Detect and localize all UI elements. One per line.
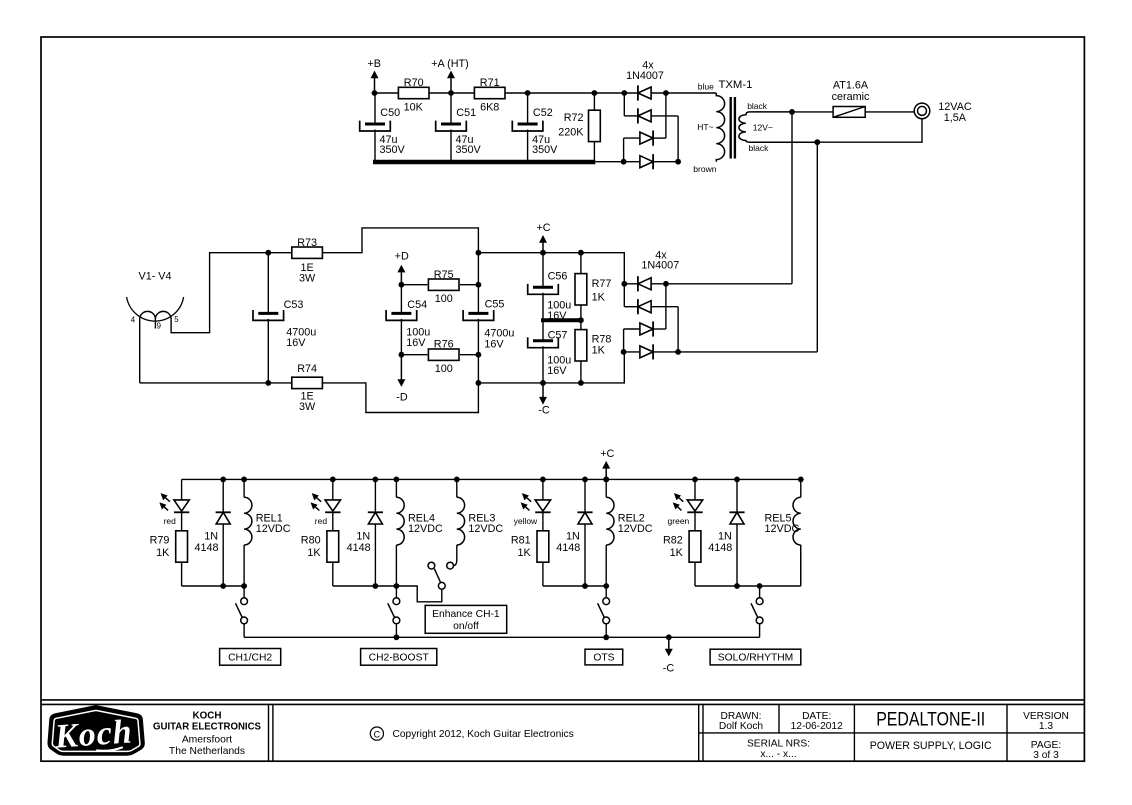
svg-text:4: 4 bbox=[131, 316, 136, 325]
relay coil REL2 bbox=[606, 497, 614, 545]
junction -C rail bbox=[540, 380, 546, 386]
svg-text:R77: R77 bbox=[592, 278, 612, 290]
wire secondary bottom to lower bridge bbox=[816, 142, 818, 352]
wire C55 bottom bbox=[477, 319, 479, 383]
title block divider logo/copyright bbox=[269, 704, 273, 761]
svg-text:GUITAR ELECTRONICS: GUITAR ELECTRONICS bbox=[153, 722, 261, 733]
svg-text:C50: C50 bbox=[380, 107, 400, 119]
svg-text:1.3: 1.3 bbox=[1039, 721, 1053, 732]
svg-text:16V: 16V bbox=[484, 339, 504, 351]
svg-text:TXM-1: TXM-1 bbox=[719, 79, 753, 91]
wire diode 1N4148 blk3 top bbox=[584, 479, 586, 512]
svg-text:4148: 4148 bbox=[347, 542, 371, 554]
wire LED blk1 top lead bbox=[181, 479, 183, 500]
title block top double line bbox=[41, 700, 1084, 705]
junction secondary bottom bbox=[814, 139, 820, 145]
junction blk4 rail LED-diode bbox=[734, 477, 740, 483]
resistor R75 bbox=[428, 279, 459, 290]
svg-text:1K: 1K bbox=[670, 547, 684, 559]
svg-text:4148: 4148 bbox=[194, 542, 218, 554]
wire diode 1N4148 blk2 bottom bbox=[374, 524, 376, 586]
svg-text:Amersfoort: Amersfoort bbox=[182, 734, 232, 745]
wire bridge row3 right bbox=[653, 137, 666, 139]
svg-text:+A (HT): +A (HT) bbox=[431, 58, 469, 70]
switch CH1/CH2 bbox=[236, 598, 248, 624]
wire R76 left bbox=[401, 354, 427, 356]
svg-text:1,5A: 1,5A bbox=[944, 112, 967, 124]
svg-text:C53: C53 bbox=[284, 299, 304, 311]
wire LED to R81 bbox=[542, 512, 544, 530]
svg-text:R78: R78 bbox=[592, 333, 612, 345]
logo Koch badge bbox=[49, 707, 143, 756]
junction R76 left bbox=[399, 352, 405, 358]
junction +B node bbox=[372, 90, 378, 96]
relay coil REL1 bbox=[244, 497, 252, 545]
svg-text:-C: -C bbox=[663, 662, 675, 674]
wire blk4 bottom rail bbox=[695, 585, 801, 587]
svg-text:100: 100 bbox=[435, 293, 453, 305]
junction R77 top bbox=[578, 250, 584, 256]
wire R73 to jog bbox=[323, 228, 479, 253]
wire blk4 switch to common bbox=[759, 624, 761, 638]
svg-text:red: red bbox=[315, 516, 328, 526]
wire C50 branch bbox=[374, 93, 376, 124]
wire blk1 switch to common bbox=[243, 624, 245, 638]
svg-text:KOCH: KOCH bbox=[193, 710, 222, 721]
wire lbridge row4 right bbox=[653, 351, 817, 353]
wire bottom rail left bbox=[140, 382, 292, 384]
wire diode 1N4148 blk4 top bbox=[736, 479, 738, 512]
node -C arrow (relay) bbox=[665, 637, 673, 656]
svg-text:100: 100 bbox=[435, 363, 453, 375]
junction C55 bottom bbox=[476, 380, 482, 386]
resistor R72 bbox=[589, 110, 601, 141]
svg-text:5: 5 bbox=[174, 315, 179, 324]
svg-text:C56: C56 bbox=[548, 270, 568, 282]
svg-text:C57: C57 bbox=[548, 330, 568, 342]
junction common blk3 bbox=[603, 634, 609, 640]
junction blk2 rail LED-diode bbox=[373, 477, 379, 483]
svg-text:12VDC: 12VDC bbox=[468, 523, 503, 535]
wire blk3 switch to common bbox=[605, 624, 607, 638]
svg-text:yellow: yellow bbox=[514, 516, 538, 526]
resistor R70 bbox=[398, 87, 429, 98]
junction blk3 rail LED-diode bbox=[582, 477, 588, 483]
junction C53 top bbox=[265, 250, 271, 256]
svg-text:C52: C52 bbox=[533, 107, 553, 119]
LED green blk4 bbox=[673, 494, 702, 513]
wire C52 branch bbox=[527, 93, 529, 124]
svg-text:V1- V4: V1- V4 bbox=[139, 271, 172, 283]
label box SOLO/RHYTHM bbox=[710, 649, 801, 665]
diode D4 top bridge row4 bbox=[640, 154, 653, 169]
switch Enhance CH-1 bbox=[428, 562, 454, 589]
junction blk3 rail LED bbox=[540, 477, 546, 483]
junction blk3 rail diode-coil bbox=[603, 477, 609, 483]
svg-text:1K: 1K bbox=[307, 547, 321, 559]
node +B arrow bbox=[371, 71, 379, 94]
wire REL5 bottom lead bbox=[800, 545, 802, 586]
wire C53 bottom bbox=[267, 319, 269, 383]
junction R75 left bbox=[399, 282, 405, 288]
svg-text:on/off: on/off bbox=[453, 621, 479, 632]
wire lbridge row4 left bbox=[624, 351, 640, 353]
junction bridge A top-left bbox=[621, 90, 627, 96]
wire pin9 stub bbox=[154, 318, 156, 328]
tube heater filament bbox=[140, 311, 171, 318]
wire REL3 to enhance switch bbox=[454, 545, 457, 566]
wire blk2 bottom rail bbox=[333, 585, 397, 587]
junction bridge C bottom-right bbox=[675, 159, 681, 165]
svg-text:350V: 350V bbox=[380, 144, 406, 156]
svg-text:1K: 1K bbox=[592, 345, 606, 357]
svg-text:1N: 1N bbox=[718, 530, 732, 542]
title block mid horizontal bbox=[699, 732, 1085, 734]
svg-text:CH1/CH2: CH1/CH2 bbox=[228, 653, 272, 664]
wire lbridge row2 right bbox=[651, 306, 678, 308]
wire switch common rail bbox=[244, 636, 760, 638]
wire blk2 switch to common bbox=[395, 624, 397, 638]
junction blk1 bottom coil bbox=[241, 583, 247, 589]
wire LED blk3 top lead bbox=[542, 479, 544, 500]
diode D5 lower bridge row1 bbox=[638, 276, 651, 291]
svg-text:3W: 3W bbox=[299, 401, 316, 413]
wire REL2 bottom lead bbox=[605, 545, 607, 586]
wire REL1 top lead bbox=[243, 479, 245, 497]
wire C54 bottom bbox=[400, 319, 402, 355]
junction blk2 bottom diode bbox=[373, 583, 379, 589]
junction +A node bbox=[448, 90, 454, 96]
connector 12VAC jack bbox=[914, 103, 930, 119]
svg-text:350V: 350V bbox=[456, 144, 482, 156]
junction blk3 bottom coil bbox=[603, 583, 609, 589]
wire bottom rail right bbox=[478, 352, 624, 383]
switch SOLO/RHYTHM bbox=[751, 598, 763, 624]
junction blk4 bottom diode bbox=[734, 583, 740, 589]
wire lbridge left-bot vertical bbox=[623, 329, 625, 352]
wire R75 left bbox=[401, 284, 427, 286]
wire REL4 top lead bbox=[395, 479, 397, 497]
wire R78 bottom lead bbox=[580, 361, 582, 383]
junction common blk2 bbox=[394, 634, 400, 640]
wire C54 column bbox=[400, 285, 402, 314]
junction R76 right bbox=[476, 352, 482, 358]
wire lbridge row3 left bbox=[624, 328, 640, 330]
svg-text:R71: R71 bbox=[480, 77, 500, 89]
junction bridge B top-right bbox=[663, 90, 669, 96]
resistor R73 bbox=[292, 247, 323, 258]
fuse AT1.6A bbox=[833, 107, 865, 118]
wire C51 branch bbox=[450, 93, 452, 124]
junction C55 top bbox=[476, 250, 482, 256]
junction blk2 bottom coil bbox=[394, 583, 400, 589]
transformer TXM-1 secondary winding bbox=[739, 112, 817, 142]
wire C51 to bus bbox=[450, 130, 452, 163]
wire C57 top bbox=[542, 320, 544, 341]
svg-text:12VDC: 12VDC bbox=[256, 523, 291, 535]
capacitor C56 bbox=[528, 284, 559, 294]
svg-text:1N: 1N bbox=[356, 530, 370, 542]
svg-text:1N: 1N bbox=[566, 530, 580, 542]
label box OTS bbox=[585, 649, 623, 665]
wire bridge right-bot vertical bbox=[677, 116, 679, 162]
svg-text:R81: R81 bbox=[511, 535, 531, 547]
diode D8 lower bridge row4 bbox=[640, 344, 653, 359]
junction blk4 rail LED bbox=[692, 477, 698, 483]
wire REL1 bottom lead bbox=[243, 545, 245, 586]
relay coil REL4 bbox=[396, 497, 404, 545]
label box CH2-BOOST bbox=[361, 649, 437, 666]
svg-text:OTS: OTS bbox=[593, 653, 614, 664]
wire blk1 switch top lead bbox=[243, 586, 245, 598]
junction lbridge C bbox=[675, 349, 681, 355]
tube heater V1-V4 envelope arc bbox=[127, 297, 184, 321]
wire secondary top to fuse bbox=[792, 111, 833, 113]
svg-text:Dolf Koch: Dolf Koch bbox=[719, 721, 763, 732]
wire blk1 bottom rail bbox=[182, 585, 245, 587]
wire diode 1N4148 blk4 bottom bbox=[736, 524, 738, 586]
LED red blk1 bbox=[160, 494, 189, 513]
svg-text:CH2-BOOST: CH2-BOOST bbox=[369, 653, 430, 664]
svg-text:12VDC: 12VDC bbox=[765, 523, 800, 535]
junction blk3 bottom diode bbox=[582, 583, 588, 589]
junction lbridge B bbox=[663, 281, 669, 287]
switch CH2-BOOST bbox=[388, 598, 400, 624]
wire LED blk4 top lead bbox=[694, 479, 696, 500]
wire bridge right-top vertical bbox=[665, 93, 667, 138]
node +C arrow (relay) bbox=[602, 461, 610, 480]
svg-text:R70: R70 bbox=[404, 77, 424, 89]
title block divider date/title bbox=[853, 704, 855, 761]
wire C57 bottom bbox=[542, 346, 544, 383]
wire R72 top lead bbox=[593, 93, 595, 110]
wire R74 to jog bbox=[323, 383, 479, 413]
junction mid bus bbox=[578, 317, 584, 323]
relay coil REL3 bbox=[457, 497, 465, 545]
wire C56 top bbox=[542, 253, 544, 288]
node +D arrow bbox=[397, 265, 405, 285]
svg-text:SOLO/RHYTHM: SOLO/RHYTHM bbox=[718, 653, 794, 664]
wire bridge left-top vertical bbox=[623, 93, 625, 116]
junction secondary top bbox=[789, 109, 795, 115]
svg-text:Enhance CH-1: Enhance CH-1 bbox=[432, 609, 500, 620]
svg-text:Copyright 2012, Koch Guitar El: Copyright 2012, Koch Guitar Electronics bbox=[393, 729, 574, 740]
junction R78 bottom bbox=[578, 380, 584, 386]
title block divider title/version bbox=[1006, 704, 1008, 761]
svg-text:Koch: Koch bbox=[53, 713, 134, 755]
wire LED to R79 bbox=[181, 512, 183, 530]
diode D6 lower bridge row2 bbox=[638, 299, 651, 314]
wire blk2 switch top lead bbox=[395, 586, 397, 598]
junction R75 right bbox=[476, 282, 482, 288]
svg-text:+C: +C bbox=[536, 222, 550, 234]
junction blk1 rail diode-coil bbox=[241, 477, 247, 483]
wire LED to R82 bbox=[694, 512, 696, 530]
svg-text:12-06-2012: 12-06-2012 bbox=[791, 721, 843, 732]
svg-text:green: green bbox=[668, 516, 690, 526]
svg-text:ceramic: ceramic bbox=[832, 91, 870, 103]
svg-text:16V: 16V bbox=[286, 337, 306, 349]
node +A arrow bbox=[447, 71, 455, 94]
copyright symbol bbox=[370, 727, 383, 740]
node +C arrow bbox=[539, 235, 547, 253]
svg-text:-C: -C bbox=[538, 405, 550, 417]
svg-text:PEDALTONE-II: PEDALTONE-II bbox=[876, 709, 985, 730]
wire mid bus (thick) bbox=[541, 318, 581, 322]
svg-text:12V~: 12V~ bbox=[753, 122, 773, 132]
title block divider drawn/date bbox=[778, 704, 780, 733]
svg-text:black: black bbox=[749, 143, 770, 153]
wire relay top rail bbox=[182, 478, 801, 480]
wire LED blk2 top lead bbox=[332, 479, 334, 500]
relay coil REL5 bbox=[793, 497, 801, 545]
wire lbridge row2 left bbox=[624, 306, 638, 308]
junction blk1 bottom diode bbox=[220, 583, 226, 589]
transformer core bbox=[731, 97, 735, 159]
resistor R76 bbox=[428, 349, 459, 360]
wire lbridge row1 left bbox=[624, 283, 638, 285]
capacitor C54 bbox=[386, 310, 417, 320]
svg-text:12VDC: 12VDC bbox=[618, 523, 653, 535]
wire bus to bridge bbox=[595, 161, 678, 163]
wire lbridge right-top vertical bbox=[665, 284, 667, 329]
resistor R71 bbox=[474, 87, 505, 98]
resistor R74 bbox=[292, 377, 323, 388]
svg-text:+D: +D bbox=[395, 251, 409, 263]
svg-text:C54: C54 bbox=[407, 299, 427, 311]
junction +C rail bbox=[540, 250, 546, 256]
diode 1N4148 blk4 bbox=[729, 512, 744, 524]
wire C56 bottom bbox=[542, 293, 544, 320]
svg-text:16V: 16V bbox=[547, 365, 567, 377]
wire C50 to bus bbox=[374, 130, 376, 163]
wire C52 to bus bbox=[527, 130, 529, 163]
wire LED to R80 bbox=[332, 512, 334, 530]
LED red blk2 bbox=[311, 494, 340, 513]
wire diode 1N4148 blk1 top bbox=[222, 479, 224, 512]
junction bridge D bottom-left bbox=[621, 159, 627, 165]
wire R72 bottom lead bbox=[593, 141, 595, 161]
resistor R80 bbox=[327, 531, 339, 562]
svg-text:10K: 10K bbox=[404, 101, 424, 113]
wire REL4 bottom lead bbox=[395, 545, 397, 586]
svg-text:1K: 1K bbox=[592, 292, 606, 304]
wire lbridge row3 right bbox=[653, 328, 666, 330]
wire blk3 switch top lead bbox=[605, 586, 607, 598]
wire blk4 switch top lead bbox=[759, 586, 761, 598]
resistor R79 bbox=[176, 531, 188, 562]
svg-text:3 of 3: 3 of 3 bbox=[1033, 750, 1059, 761]
junction relay +C bbox=[603, 477, 609, 483]
wire REL2 top lead bbox=[605, 479, 607, 497]
svg-text:350V: 350V bbox=[532, 144, 558, 156]
junction common -C bbox=[666, 634, 672, 640]
wire R75 right bbox=[460, 284, 478, 286]
wire top rail right bbox=[478, 253, 624, 284]
diode 1N4148 blk3 bbox=[577, 512, 592, 524]
svg-text:R75: R75 bbox=[434, 269, 454, 281]
wire diode 1N4148 blk3 bottom bbox=[584, 524, 586, 586]
diode D3 top bridge row3 bbox=[640, 131, 653, 146]
wire REL5 bottom lead bbox=[800, 545, 802, 586]
capacitor C55 bbox=[463, 310, 494, 320]
svg-text:HT~: HT~ bbox=[697, 122, 713, 132]
wire R76 right bbox=[460, 354, 478, 356]
resistor R78 bbox=[575, 330, 587, 361]
wire diode 1N4148 blk1 bottom bbox=[222, 524, 224, 586]
wire diode 1N4148 blk2 top bbox=[374, 479, 376, 512]
capacitor C50 bbox=[360, 121, 391, 131]
svg-text:12VDC: 12VDC bbox=[408, 523, 443, 535]
LED yellow blk3 bbox=[521, 494, 550, 513]
junction lbridge D bbox=[621, 349, 627, 355]
diode D2 top bridge row2 bbox=[638, 108, 651, 123]
svg-text:R73: R73 bbox=[297, 237, 317, 249]
svg-text:4148: 4148 bbox=[556, 542, 580, 554]
switch OTS bbox=[598, 598, 610, 624]
wire R80 bottom lead bbox=[332, 562, 334, 586]
junction C53 bottom bbox=[265, 380, 271, 386]
wire C55 top bbox=[477, 253, 479, 314]
wire secondary top to lower bridge bbox=[791, 112, 793, 284]
junction blk4 switch takeoff bbox=[757, 583, 763, 589]
wire bridge row2 bbox=[624, 115, 638, 117]
wire ground bus (thick) bbox=[373, 160, 595, 165]
junction blk4 rail diode-coil bbox=[798, 477, 804, 483]
svg-text:R72: R72 bbox=[564, 112, 584, 124]
wire secondary bottom run bbox=[817, 119, 922, 142]
wire fuse to connector bbox=[865, 111, 914, 113]
svg-text:R82: R82 bbox=[663, 535, 683, 547]
svg-text:x... - x...: x... - x... bbox=[760, 749, 796, 760]
junction lbridge A bbox=[621, 281, 627, 287]
wire R82 bottom lead bbox=[694, 562, 696, 586]
svg-text:1N: 1N bbox=[204, 530, 218, 542]
svg-text:1N4007: 1N4007 bbox=[626, 70, 664, 82]
svg-text:brown: brown bbox=[693, 164, 716, 174]
wire lbridge row1 right bbox=[651, 283, 792, 285]
wire pin5 to top rail bbox=[171, 253, 291, 333]
svg-text:blue: blue bbox=[698, 81, 714, 91]
label box CH1/CH2 bbox=[220, 649, 281, 666]
junction R72 node bbox=[592, 90, 598, 96]
wire blk3 bottom rail bbox=[543, 585, 606, 587]
svg-text:AT1.6A: AT1.6A bbox=[833, 79, 869, 91]
svg-text:The Netherlands: The Netherlands bbox=[169, 746, 245, 757]
svg-text:R74: R74 bbox=[297, 363, 317, 375]
svg-text:6K8: 6K8 bbox=[480, 101, 499, 113]
wire R77 top lead bbox=[580, 253, 582, 274]
diode D7 lower bridge row3 bbox=[640, 321, 653, 336]
svg-text:C51: C51 bbox=[456, 107, 476, 119]
wire pin4 down bbox=[139, 318, 141, 383]
svg-text:3W: 3W bbox=[299, 273, 316, 285]
capacitor C52 bbox=[512, 121, 543, 131]
svg-text:R76: R76 bbox=[434, 339, 454, 351]
svg-text:C55: C55 bbox=[485, 299, 505, 311]
diode D1 top bridge row1 bbox=[638, 85, 651, 100]
label box Enhance CH-1 on/off bbox=[425, 605, 507, 633]
capacitor C53 bbox=[253, 310, 284, 320]
resistor R82 bbox=[689, 531, 701, 562]
wire R81 bottom lead bbox=[542, 562, 544, 586]
svg-text:C: C bbox=[374, 729, 381, 739]
resistor R77 bbox=[575, 274, 587, 305]
junction blk2 rail diode-coil bbox=[394, 477, 400, 483]
svg-text:red: red bbox=[164, 516, 177, 526]
svg-text:R79: R79 bbox=[150, 535, 170, 547]
diode 1N4148 blk1 bbox=[216, 512, 231, 524]
